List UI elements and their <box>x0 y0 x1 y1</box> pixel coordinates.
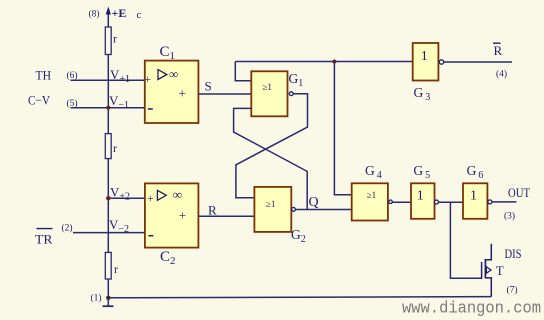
wire: branch down to transistor gate <box>450 202 481 278</box>
comparator C2 <box>145 183 199 247</box>
channel bar <box>484 259 486 279</box>
svg-text:≥1: ≥1 <box>367 190 377 200</box>
G2 output bubble <box>292 208 296 212</box>
svg-text:+: + <box>179 86 186 101</box>
wire: bottom ground rail <box>108 297 491 298</box>
svg-text:DIS: DIS <box>505 246 522 261</box>
wire: G3 to reset pin R bar <box>444 61 512 63</box>
svg-text:1: 1 <box>417 189 424 204</box>
NOR gate G2 <box>254 187 291 232</box>
wire: G5 output to G6 <box>439 201 463 203</box>
gate bar <box>481 262 483 279</box>
buffer gate G5 <box>411 183 435 219</box>
resistor r2 <box>105 134 111 159</box>
drain wire up to DIS pin <box>485 244 491 260</box>
wire R: C2 output to G2 lower input <box>198 215 254 217</box>
wire: long vertical from top line to G4 upper input <box>334 62 351 195</box>
+E supply arrow <box>106 7 111 15</box>
svg-text:TR: TR <box>35 231 53 246</box>
svg-text:www.diangon.com: www.diangon.com <box>402 299 541 318</box>
svg-text:S: S <box>205 79 212 94</box>
wire TH (pin 6) to C1 + input <box>71 79 145 81</box>
svg-text:∞: ∞ <box>173 187 182 202</box>
junction dot pin 1 <box>106 296 110 300</box>
svg-text:(5): (5) <box>67 98 78 109</box>
G6 output bubble <box>488 200 492 204</box>
svg-text:(8): (8) <box>89 9 100 20</box>
NOR gate G1 <box>251 71 287 116</box>
svg-text:(6): (6) <box>67 70 78 81</box>
svg-text:(1): (1) <box>91 293 102 304</box>
svg-text:+: + <box>144 72 151 86</box>
svg-text:(4): (4) <box>496 69 507 80</box>
G4 output bubble <box>389 200 393 204</box>
comparator C1 <box>145 61 199 123</box>
C2 minus input mark <box>148 235 153 237</box>
svg-text:R: R <box>208 202 217 217</box>
G5 output bubble <box>435 200 439 204</box>
svg-text:T: T <box>496 263 504 278</box>
wire C-V (pin 5) to C1 - input <box>71 107 145 109</box>
wire: G1 output cross-couple to G2 upper input <box>236 94 308 198</box>
wire: drop from top line into G1 upper input <box>235 62 251 81</box>
svg-text:(3): (3) <box>504 211 515 222</box>
ground symbol <box>107 298 109 306</box>
svg-text:Q: Q <box>309 195 319 210</box>
svg-text:1: 1 <box>421 49 428 64</box>
svg-text:r: r <box>114 262 118 276</box>
wire: top feedback line to G3 <box>235 61 412 63</box>
source stub down to ground rail <box>485 278 491 297</box>
svg-text:R: R <box>494 43 503 58</box>
wire: main vertical divider bus <box>107 9 109 298</box>
svg-text:+: + <box>179 208 186 223</box>
junction dot V-1 <box>106 106 110 110</box>
svg-text:≥1: ≥1 <box>266 199 276 209</box>
wire: Q cross-couple up to G1 lower input <box>234 108 308 209</box>
svg-text:TH: TH <box>36 68 52 83</box>
buffer gate G3 <box>413 43 439 81</box>
resistor r1 <box>105 27 111 55</box>
C1 triangle symbol <box>158 70 167 80</box>
junction dot V+2 <box>106 196 110 200</box>
wire: G6 output to OUT pin <box>492 201 516 203</box>
buffer gate G6 <box>463 183 487 219</box>
G1 output bubble <box>289 92 293 96</box>
svg-text:+: + <box>147 191 154 205</box>
svg-text:(7): (7) <box>507 284 518 295</box>
svg-text:C−V: C−V <box>28 92 51 107</box>
body stub with arrow <box>485 269 491 271</box>
svg-text:r: r <box>113 141 117 155</box>
wire Q: G2 output to G4 lower input <box>295 209 351 211</box>
svg-text:r: r <box>113 32 117 46</box>
svg-text:OUT: OUT <box>508 185 530 200</box>
svg-text:≥1: ≥1 <box>262 82 272 92</box>
wire TR (pin 2) to C2 - input <box>73 232 145 234</box>
wire: G4 output to G5 <box>393 201 411 203</box>
svg-text:+E: +E <box>112 6 127 20</box>
wire S: C1 output to G1 middle input <box>198 93 251 95</box>
junction dot on top line <box>332 60 336 64</box>
OR gate G4 <box>352 183 388 220</box>
wire V+2 node to C2 + input <box>108 197 145 199</box>
svg-text:c: c <box>137 9 142 21</box>
resistor r3 <box>105 252 111 279</box>
svg-text:∞: ∞ <box>169 67 178 82</box>
G3 bubble (right side, input from pin 4) <box>439 60 443 64</box>
svg-text:(2): (2) <box>62 222 73 233</box>
svg-text:1: 1 <box>470 189 477 204</box>
C1 minus input mark <box>148 108 153 110</box>
C2 triangle symbol <box>157 190 166 200</box>
